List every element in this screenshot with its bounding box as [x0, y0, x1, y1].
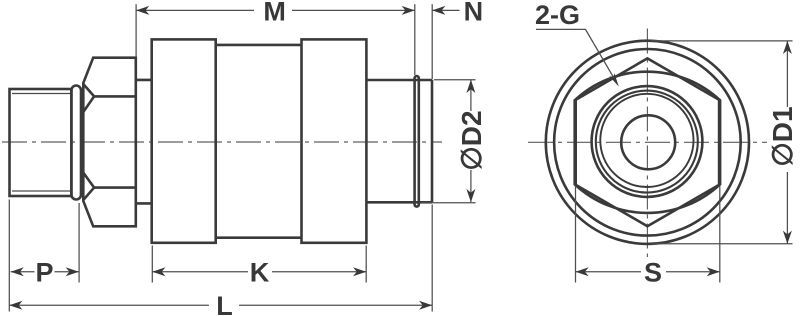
svg-text:M: M [263, 0, 286, 26]
svg-text:P: P [35, 258, 53, 288]
svg-text:∅D1: ∅D1 [767, 106, 798, 166]
svg-text:L: L [216, 291, 233, 316]
svg-text:S: S [644, 258, 662, 288]
svg-text:∅D2: ∅D2 [456, 110, 487, 170]
svg-text:K: K [250, 258, 270, 288]
svg-text:N: N [464, 0, 484, 26]
svg-text:2-G: 2-G [535, 0, 580, 30]
